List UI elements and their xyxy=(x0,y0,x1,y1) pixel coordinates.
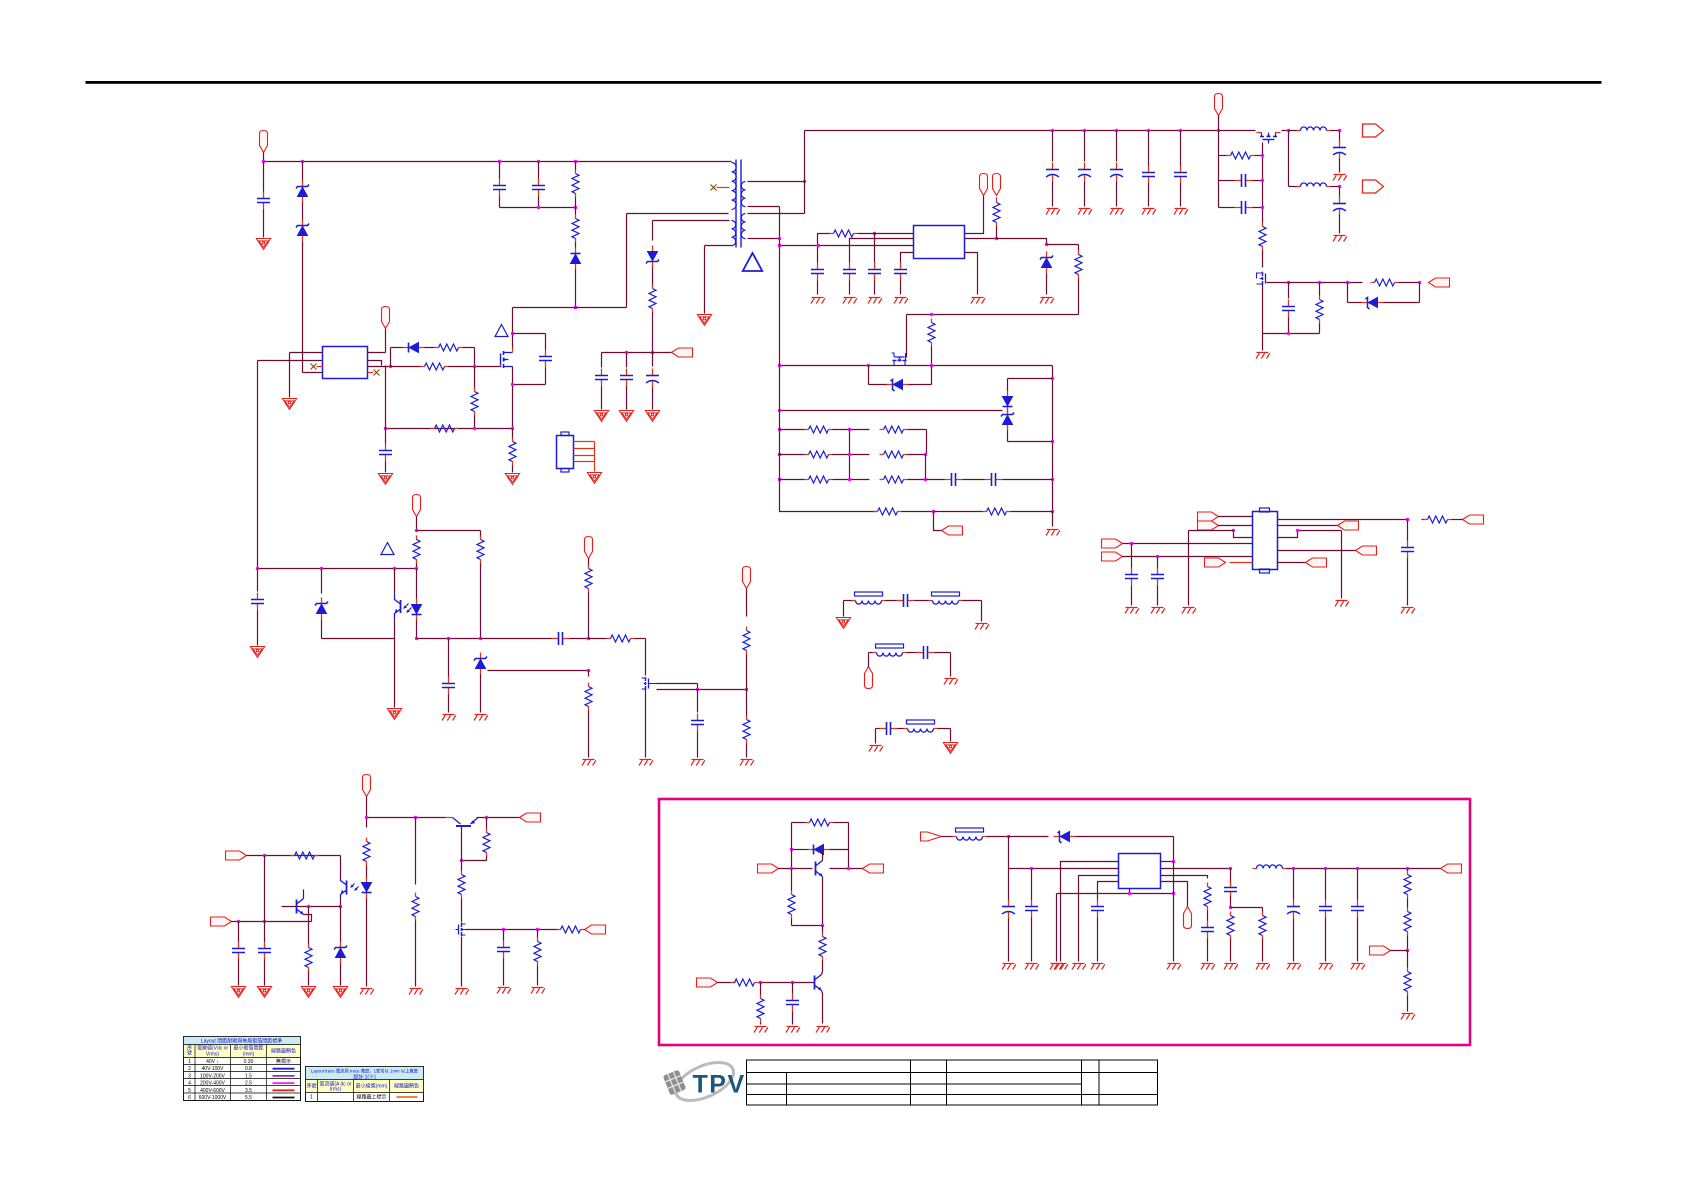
junction rail/row2 xyxy=(778,453,781,456)
svg-text:序號: 序號 xyxy=(306,1083,316,1090)
ground GND34 xyxy=(975,624,989,630)
wire tvs low xyxy=(1007,431,1009,442)
wire g3 riser xyxy=(875,729,877,744)
wire fb4 out xyxy=(938,728,951,730)
wire gate rail xyxy=(657,689,747,691)
junction bus/C15 xyxy=(1115,129,1118,132)
wire g3 drop xyxy=(950,729,952,742)
wire tvs top link xyxy=(1008,378,1053,380)
wire R42 col xyxy=(791,869,793,891)
junction clamp node xyxy=(574,306,577,309)
resistor R3 gate xyxy=(435,344,463,351)
wire to R10 xyxy=(480,531,482,536)
wire P3 down xyxy=(416,517,418,531)
wire film cap 2 top xyxy=(1180,131,1182,166)
ground GND23 xyxy=(1333,175,1347,181)
port P17 (flag) xyxy=(1102,552,1123,561)
capacitor C39 xyxy=(1025,900,1038,918)
resistor R27 xyxy=(880,451,908,458)
ground GND50 xyxy=(497,988,511,994)
junction P3 node xyxy=(415,529,418,532)
wire R20 to U3 xyxy=(858,233,914,235)
junction fb/R9 xyxy=(415,567,418,570)
ground GND5 (triangle) xyxy=(505,474,519,485)
wire to R11 xyxy=(589,638,607,640)
wire fb col down xyxy=(1173,894,1175,962)
svg-text:最小銜箔間距: 最小銜箔間距 xyxy=(233,1045,263,1052)
svg-text:無標示: 無標示 xyxy=(276,1058,291,1065)
LED U2 (opto diode) xyxy=(412,599,422,621)
ground GND28 xyxy=(843,298,857,304)
svg-text:1: 1 xyxy=(310,1095,313,1101)
capacitor C5 xyxy=(379,444,392,462)
capacitor C41 xyxy=(1201,921,1214,939)
wire C2 bottom xyxy=(499,197,501,208)
wire U3 pin8 to port xyxy=(965,196,984,234)
wire U1 pin1 xyxy=(290,352,323,354)
wire C38 drop xyxy=(1008,869,1010,900)
wire R47 to gnd xyxy=(1230,940,1232,962)
ground GND44 (triangle) xyxy=(257,987,271,998)
wire R35 to LED xyxy=(366,866,368,879)
wire opto emitter to gnd xyxy=(394,639,396,708)
wire U3 pin4 left xyxy=(901,253,914,263)
junction bus/C17 xyxy=(1179,129,1182,132)
wire to R38 xyxy=(461,861,463,871)
junction gate/R39 xyxy=(536,928,539,931)
resistor R13 xyxy=(585,683,592,711)
wire C37 drop xyxy=(792,983,794,994)
ground GND53 xyxy=(754,1027,768,1033)
wire row1 right xyxy=(908,429,927,431)
wire C1 top xyxy=(263,162,265,192)
wire pin3 rail xyxy=(1189,530,1234,532)
junction emitter node xyxy=(460,859,463,862)
junction opto out xyxy=(339,905,342,908)
capacitor C20 xyxy=(1235,174,1253,187)
capacitor C23a xyxy=(811,263,824,281)
wire C12 drop xyxy=(697,690,699,713)
wire opto emitter down xyxy=(394,619,396,639)
svg-text:0.8: 0.8 xyxy=(245,1066,252,1072)
wire ZD1-ZD2 xyxy=(302,203,304,220)
pin no-connect x mark U1 pin5 xyxy=(374,370,380,376)
junction bus/C14 xyxy=(1083,129,1086,132)
ground GND65 xyxy=(1287,964,1301,970)
ground GND31 xyxy=(971,298,985,304)
port P25 xyxy=(363,775,371,797)
resistor R43 xyxy=(819,933,826,961)
table 2 trace width spec xyxy=(306,1067,424,1102)
IC U6 buck converter box xyxy=(1119,854,1161,889)
wire R10 down xyxy=(480,564,482,639)
capacitor C10 xyxy=(442,677,455,695)
wire divider column xyxy=(1052,366,1054,512)
resistor R6 sense xyxy=(431,425,459,432)
capacitor C38 electrolytic xyxy=(1002,900,1015,919)
ground GND4 (triangle) xyxy=(378,474,392,485)
ground GND7 (triangle) xyxy=(594,411,608,422)
ground GND35 xyxy=(944,679,958,685)
ground GND66 xyxy=(1319,964,1333,970)
wire C33 to gnd xyxy=(1407,559,1409,606)
junction pin3 node xyxy=(1232,529,1235,532)
wire sw rail xyxy=(780,365,1053,367)
svg-text:(mm): (mm) xyxy=(243,1052,255,1058)
wire main bus HV xyxy=(264,161,732,163)
capacitor C2 xyxy=(493,179,506,197)
capacitor C32 xyxy=(1151,568,1164,586)
wire pin8 to gnd xyxy=(1341,531,1343,599)
capacitor C15 electrolytic xyxy=(1110,163,1123,182)
optocoupler U2 phototransistor xyxy=(395,595,412,619)
wire C34 drop xyxy=(238,922,240,942)
wire LED down xyxy=(416,621,418,639)
wire U6 gnd pin xyxy=(1129,889,1131,894)
wire L2 to out xyxy=(1331,186,1340,188)
ground GND12 xyxy=(442,715,456,721)
junction drive node xyxy=(389,365,392,368)
wire fb2 out xyxy=(963,600,982,602)
diode D4 schottky body xyxy=(887,380,909,392)
wire C19 drop xyxy=(1339,187,1341,198)
wire body diode branch xyxy=(868,366,870,385)
resistor R15 xyxy=(743,716,750,744)
junction base/R34 xyxy=(307,905,310,908)
wire row2-row3 link xyxy=(925,455,927,480)
ground GND8 (triangle) xyxy=(619,411,633,422)
port P2 VCC xyxy=(382,307,390,329)
junction out/L3 xyxy=(1229,867,1232,870)
junction drive/R23 xyxy=(930,313,933,316)
wire bus to R1 xyxy=(575,162,577,170)
svg-text:40V ↓: 40V ↓ xyxy=(206,1059,219,1065)
wire R42 link xyxy=(792,925,823,927)
wire R34 to gnd xyxy=(308,972,310,986)
wire U3 pin5 to gnd xyxy=(965,253,978,295)
wire to R39 xyxy=(537,930,539,938)
wire C23 drop xyxy=(874,234,876,263)
wire Q1 source down xyxy=(512,367,514,429)
junction LED low node xyxy=(415,637,418,640)
resistor R35 xyxy=(363,838,370,866)
wire to opto collector xyxy=(340,856,342,878)
junction comp node xyxy=(587,637,590,640)
inductor L2 xyxy=(1297,183,1331,187)
junction p23/base col xyxy=(263,854,266,857)
ground GND49 xyxy=(455,989,469,995)
capacitor C18 electrolytic xyxy=(1333,141,1346,160)
ground GND21 xyxy=(1142,209,1156,215)
wire R11 to Q2 drain xyxy=(635,638,646,640)
wire row2 right xyxy=(908,454,927,456)
ground GND48 xyxy=(409,989,423,995)
wire P25 down xyxy=(366,797,368,828)
wire g2 riser xyxy=(868,653,870,668)
resistor R21 xyxy=(993,199,1000,227)
capacitor C16 xyxy=(1142,166,1155,184)
wire U4 pin3 jog xyxy=(1234,531,1253,538)
wire drain to C4 xyxy=(513,333,546,335)
capacitor C45 xyxy=(1351,900,1364,918)
wire C12 to gnd xyxy=(697,732,699,758)
wire to R49 xyxy=(1407,869,1409,871)
resistor R9 xyxy=(413,536,420,564)
zener ZD3 aux xyxy=(646,246,659,268)
wire U3 pin3 to sec low xyxy=(780,245,914,247)
ground GND37 (triangle) xyxy=(943,743,957,754)
wire clamp right leg up xyxy=(626,214,628,308)
resistor R28 xyxy=(805,476,833,483)
capacitor C21 xyxy=(1235,201,1253,214)
wire C4 top xyxy=(545,334,547,350)
wire Q10 emitter xyxy=(822,991,823,1024)
resistor R1 snubber xyxy=(572,170,579,198)
wire U1 pin4 xyxy=(303,372,323,374)
wire P4 down xyxy=(588,559,590,565)
resistor R30 xyxy=(874,508,902,515)
mosfet Q4 rail2 switch xyxy=(1257,272,1266,285)
junction o/C44 xyxy=(1324,867,1327,870)
resistor R38 xyxy=(458,871,465,899)
wire T1 sec1 top out xyxy=(748,181,805,183)
junction bus/C16 xyxy=(1147,129,1150,132)
svg-text:200V-400V: 200V-400V xyxy=(200,1081,225,1087)
ground GND1 (triangle) xyxy=(256,239,270,250)
pin no-connect x mark U1 pin3 xyxy=(311,364,317,370)
wire C18 drop xyxy=(1339,131,1341,142)
wire R22 down xyxy=(1078,279,1080,315)
wire R38 down xyxy=(461,899,463,922)
pin no-connect x mark T1 tap xyxy=(711,185,717,191)
wire U3 pin7 xyxy=(965,238,997,240)
svg-text:4: 4 xyxy=(188,1081,191,1087)
ground GND13 xyxy=(474,715,488,721)
junction q4 out xyxy=(1287,281,1290,284)
resistor R25 xyxy=(880,426,908,433)
wire bulk cap 3 top xyxy=(1116,131,1118,162)
wire C42 down xyxy=(1230,897,1232,908)
wire q4 stub xyxy=(1262,272,1264,273)
wire p34 link xyxy=(1391,950,1408,952)
TPV logo globe xyxy=(663,1055,739,1109)
port P30 (flag) xyxy=(697,978,718,987)
wire sec inter xyxy=(779,207,781,239)
wire P6 column xyxy=(1218,131,1220,208)
wire fb to LED xyxy=(416,569,418,599)
capacitor C1 xyxy=(257,192,270,210)
junction b/R45 xyxy=(759,981,762,984)
ground GND17 xyxy=(740,760,754,766)
capacitor C22 xyxy=(1282,300,1295,318)
ground GND43 (triangle) xyxy=(231,987,245,998)
wire C18 to gnd xyxy=(1339,159,1341,173)
resistor R48 xyxy=(1259,912,1266,940)
wire p31 to FB5 xyxy=(942,836,953,838)
wire rail to R15 xyxy=(746,690,748,716)
capacitor C35 xyxy=(258,942,271,960)
mosfet Q1 switching xyxy=(501,351,513,368)
junction pin3 mid xyxy=(817,244,820,247)
svg-text:5: 5 xyxy=(188,1088,191,1094)
wire primary lower tap xyxy=(627,213,729,215)
optocoupler U5 phototransistor xyxy=(341,878,359,898)
wire p30 to R44 xyxy=(718,982,736,984)
port P24 (flag) xyxy=(211,917,232,926)
svg-text:0.30: 0.30 xyxy=(244,1059,254,1065)
table 1 layout clearance spec xyxy=(184,1037,301,1101)
junction snub node xyxy=(1229,906,1232,909)
wire ZD4 down xyxy=(321,620,323,639)
wire R37 down xyxy=(486,857,488,861)
wire ZD9 to gnd xyxy=(340,964,342,986)
wire U6 gnd rail xyxy=(1057,893,1174,895)
wire R19 down xyxy=(1319,324,1321,334)
svg-text:Layout trace 電流與 trace 寬度，1安培以: Layout trace 電流與 trace 寬度，1安培以 1mm 以上寬度 xyxy=(311,1068,419,1075)
resistor R7 sense xyxy=(509,438,516,466)
wire rail2 return xyxy=(1263,333,1320,335)
wire pin3 to gnd xyxy=(1188,531,1190,606)
svg-text:線路圖顏色: 線路圖顏色 xyxy=(271,1048,296,1055)
ground GND6 (triangle) xyxy=(587,473,601,484)
wire R46-C41 xyxy=(1207,911,1209,921)
warning triangle mid xyxy=(381,543,394,555)
wire to R19 xyxy=(1319,283,1321,296)
port P27 (flag) xyxy=(585,925,606,934)
wire opto emitter xyxy=(340,898,342,907)
inductor L1 xyxy=(1297,127,1331,131)
wire emitter link xyxy=(462,860,487,862)
wire to R34 xyxy=(308,907,310,944)
wire C45 drop xyxy=(1357,869,1359,900)
wire C9 top xyxy=(257,569,259,592)
wire R45 down xyxy=(760,1023,762,1025)
ground GND62 xyxy=(1201,964,1215,970)
ground GND40 xyxy=(1151,608,1165,614)
wire Q4 out xyxy=(1267,282,1289,284)
ground GND2 primary (triangle) xyxy=(697,315,711,326)
wire P6 to bus xyxy=(1218,116,1220,131)
resistor R49 xyxy=(1404,871,1411,899)
wire C39 to gnd xyxy=(1031,918,1033,962)
wire U1 pin1 to gnd xyxy=(289,353,291,398)
wire Q9 collector xyxy=(822,850,824,861)
wire R12 down xyxy=(588,593,590,639)
wire U4 pin2 xyxy=(1219,525,1253,527)
ground GND46 (triangle) xyxy=(333,987,347,998)
junction rail/row1 xyxy=(778,428,781,431)
resistor R18 xyxy=(1371,279,1399,286)
transformer T1 primary winding upper xyxy=(732,163,737,210)
wire U4 out xyxy=(1278,519,1408,521)
ground GND11 (triangle) xyxy=(387,709,401,720)
resistor R26 xyxy=(805,451,833,458)
wire Q3 gate column xyxy=(1262,143,1264,223)
wire ZD4 return xyxy=(322,638,395,640)
wire T1 primary bottom out xyxy=(705,245,732,247)
zener ZD9 xyxy=(334,942,347,964)
junction gnd/fb xyxy=(1172,892,1175,895)
ground GND19 xyxy=(1078,209,1092,215)
junction sw/R23 xyxy=(930,364,933,367)
junction div2 xyxy=(1051,440,1054,443)
junction row2 link xyxy=(924,453,927,456)
wire Q1 drain stub xyxy=(512,348,514,353)
junction p1/C23 xyxy=(873,232,876,235)
wire LED to gnd xyxy=(366,899,368,987)
junction bus/P1 xyxy=(262,160,265,163)
wire fb col xyxy=(1173,862,1175,894)
wire ZD3 to R8 xyxy=(652,268,654,285)
port P1 AC input xyxy=(260,131,268,153)
ground GND67 xyxy=(1351,964,1365,970)
junction rail/row3 xyxy=(778,478,781,481)
junction gate/C36 xyxy=(502,928,505,931)
junction bus/ZD1 xyxy=(301,160,304,163)
wire Q7 to port xyxy=(477,817,520,819)
capacitor C30 xyxy=(880,722,898,735)
capacitor C42 xyxy=(1224,881,1237,899)
wire d5 right xyxy=(830,849,849,851)
mosfet Q8 small-signal xyxy=(456,923,466,936)
ground GND57 xyxy=(1054,964,1068,970)
wire Q3 node down xyxy=(1288,131,1290,187)
ground GND63 xyxy=(1224,964,1238,970)
zener ZD2 xyxy=(296,220,309,242)
junction sw/fb xyxy=(1172,860,1175,863)
junction o/C43 xyxy=(1292,867,1295,870)
wire R43 down xyxy=(822,961,824,972)
transistor Q6 NPN xyxy=(297,899,304,915)
wire D3 return xyxy=(1419,283,1421,303)
port P21 (flag) xyxy=(1356,546,1377,555)
svg-text:2.5: 2.5 xyxy=(245,1081,252,1087)
wire tvs return xyxy=(1008,441,1047,443)
capacitor C36 xyxy=(497,941,510,959)
wire C3 top xyxy=(538,162,540,179)
capacitor C13 electrolytic xyxy=(1046,163,1059,182)
port P28 (flag) xyxy=(758,864,779,873)
wire to R7 xyxy=(512,429,514,438)
wire Q6 collector stub xyxy=(303,890,305,899)
inductor FB1 with shield xyxy=(852,592,886,604)
wire to ZD9 xyxy=(340,907,342,942)
wire Q8 source to gnd xyxy=(461,937,463,987)
ground GND3 (triangle) xyxy=(282,399,296,410)
port P5 xyxy=(743,567,751,589)
wire q2 stub xyxy=(645,678,647,679)
wire snubber bottom xyxy=(500,207,576,209)
capacitor C9 xyxy=(251,593,264,611)
junction d5 left xyxy=(790,848,793,851)
capacitor C3 xyxy=(532,179,545,197)
zener ZD5 xyxy=(474,653,487,675)
wire C45 to gnd xyxy=(1357,918,1359,962)
wire Q2 gate right xyxy=(657,683,698,685)
junction p28/loop xyxy=(790,867,793,870)
wire U6 pin4 xyxy=(1098,882,1119,900)
resistor R31 xyxy=(983,508,1011,515)
resistor R10 xyxy=(477,536,484,564)
wire L1 to out xyxy=(1331,130,1340,132)
ground GND18 xyxy=(1046,209,1060,215)
port P8 output2 (arrow) xyxy=(1363,180,1384,193)
port P18 (flag) xyxy=(1205,558,1226,567)
wire p24 rail xyxy=(232,921,312,923)
wire C36 drop xyxy=(503,930,505,941)
capacitor C4 drain snub xyxy=(539,350,552,368)
wire node down xyxy=(588,671,590,677)
